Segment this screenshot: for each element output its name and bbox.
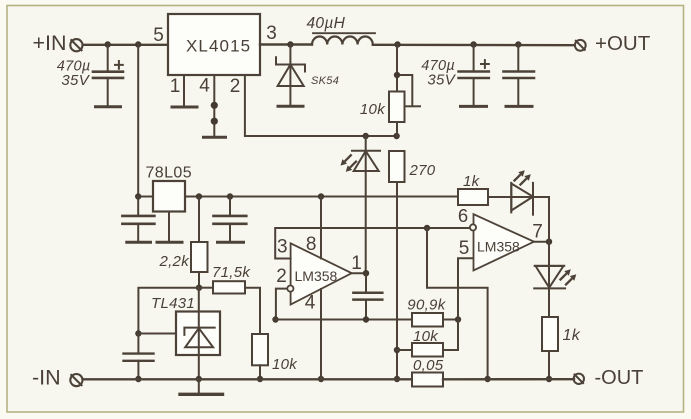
- svg-text:SK54: SK54: [311, 75, 339, 87]
- pin4 lead XL4015: [213, 75, 215, 136]
- node output cap 1: [470, 41, 476, 47]
- terminal -OUT: [574, 374, 584, 384]
- wire 5V rail: [138, 196, 153, 198]
- LED3 CC indicator: [534, 242, 576, 317]
- wire ref to TL431: [138, 333, 176, 335]
- ground bar (input cap): [96, 105, 121, 108]
- wire 270 down to shunt -IN node: [396, 182, 398, 379]
- node 10k bottom: [257, 376, 263, 382]
- LED1 indicator: [341, 136, 381, 273]
- ground bar (78L05 out cap): [218, 241, 244, 244]
- wire inductor to +OUT: [373, 44, 575, 47]
- svg-text:1k: 1k: [563, 327, 581, 344]
- node SK54 anode: [287, 41, 293, 47]
- node pot top: [394, 41, 400, 47]
- svg-text:4: 4: [305, 293, 316, 314]
- 78L05 ground lead: [168, 212, 170, 241]
- capacitor output ceramic: [504, 45, 535, 106]
- resistor 1k top: [458, 189, 488, 205]
- svg-text:3: 3: [277, 236, 288, 257]
- inductor 40uH: [312, 36, 373, 44]
- capacitor 78L05 output: [214, 197, 247, 241]
- node 10k sense: [394, 347, 400, 353]
- capacitor 470u output: [459, 45, 489, 106]
- svg-text:10k: 10k: [360, 101, 386, 118]
- svg-text:LM358: LM358: [477, 239, 520, 255]
- capacitor 470u input: [93, 45, 123, 106]
- node 90.9k right / pin5: [455, 316, 461, 322]
- node pin4 junction dots: [211, 102, 218, 109]
- resistor 270: [389, 151, 405, 182]
- pin1 ground lead XL4015: [183, 75, 185, 106]
- svg-text:1: 1: [351, 253, 362, 274]
- node op1 output: [363, 270, 369, 276]
- wire pot to FB node: [396, 122, 398, 136]
- svg-text:LM358: LM358: [295, 268, 338, 284]
- ground bar (pin4): [204, 136, 226, 139]
- op-amp U1B LM358: [474, 214, 535, 270]
- svg-text:5: 5: [153, 25, 164, 46]
- node LED1 cathode: [363, 133, 369, 139]
- resistor 0.05 shunt: [412, 373, 443, 387]
- svg-text:+IN: +IN: [33, 31, 67, 55]
- node TL431 anode: [196, 376, 202, 382]
- svg-text:1: 1: [170, 76, 181, 97]
- IC TL431: [176, 288, 220, 379]
- node TL431 cathode / 71.5k: [196, 285, 202, 291]
- svg-text:1k: 1k: [463, 173, 481, 190]
- wire op1 pin4 ground: [320, 289, 322, 379]
- svg-text:7: 7: [532, 222, 543, 243]
- svg-text:0,05: 0,05: [413, 357, 444, 374]
- svg-text:6: 6: [458, 205, 468, 226]
- svg-text:XL4015: XL4015: [186, 36, 251, 55]
- node 78L05 out cap: [227, 193, 233, 199]
- LED2 CV indicator: [488, 170, 549, 215]
- node output cap 2: [515, 41, 521, 47]
- IC XL4015 box: [168, 14, 260, 75]
- resistor 2.2k: [191, 197, 208, 288]
- node 78L05 input: [135, 193, 141, 199]
- svg-text:-IN: -IN: [32, 366, 61, 390]
- resistor 10k lower left: [252, 334, 268, 379]
- wire op1 output pin1: [352, 272, 366, 274]
- node TL431 ref: [135, 330, 141, 336]
- node input cap junction: [105, 41, 111, 47]
- svg-text:3: 3: [266, 23, 277, 44]
- terminal +OUT: [575, 40, 586, 51]
- node op1 pin4 ground: [318, 376, 324, 382]
- svg-text:40µH: 40µH: [307, 15, 346, 32]
- wire op1 pin2 input: [276, 289, 288, 320]
- wire LED2 to op2 out: [548, 197, 550, 242]
- svg-text:270: 270: [409, 162, 436, 179]
- terminal -IN: [70, 374, 82, 386]
- svg-text:35V: 35V: [427, 71, 456, 88]
- svg-text:-OUT: -OUT: [595, 367, 644, 389]
- node bottom rail x397: [394, 376, 400, 382]
- diode SK54 schottky: [276, 45, 305, 105]
- svg-text:2,2k: 2,2k: [158, 253, 190, 270]
- wire XL4015 pin3 to diode node: [260, 43, 312, 45]
- wire feedback net y319: [276, 319, 413, 321]
- capacitor comp op1: [353, 273, 382, 319]
- capacitor ref filter: [124, 334, 154, 380]
- resistor 1k right: [542, 317, 558, 379]
- wire op1 pin8 supply: [320, 197, 322, 259]
- node 1k bottom: [546, 376, 552, 382]
- wire bottom rail left: [83, 378, 412, 380]
- capacitor 78L05 input: [122, 197, 154, 241]
- svg-text:TL431: TL431: [151, 295, 195, 312]
- wire op2 pin6 sense: [427, 228, 488, 379]
- ground bar (pin1): [172, 106, 197, 109]
- pin6 bubble: [470, 224, 476, 230]
- node +IN sense branch: [135, 41, 141, 47]
- node FB / 270 top: [393, 133, 399, 139]
- wire XL4015 pin2 feedback: [245, 75, 397, 136]
- node 2.2k top: [196, 193, 202, 199]
- svg-text:90,9k: 90,9k: [407, 296, 446, 313]
- ground bar (78L05 in cap): [127, 241, 151, 244]
- svg-text:10k: 10k: [272, 356, 298, 373]
- ground bar (out cap 1): [461, 105, 487, 108]
- ground symbol TL431: [180, 379, 223, 394]
- svg-text:4: 4: [199, 75, 210, 96]
- node op2 output: [546, 239, 552, 245]
- wire bottom rail right: [443, 378, 574, 380]
- resistor 71.5k: [199, 281, 260, 334]
- wire +IN to XL4015 pin5: [83, 44, 168, 46]
- wire +IN down to 78L05 input: [137, 45, 139, 197]
- node op1 supply: [318, 193, 324, 199]
- op-amp U1A LM358: [291, 243, 352, 304]
- svg-text:5: 5: [459, 238, 470, 259]
- svg-text:71,5k: 71,5k: [212, 264, 251, 281]
- wire op2 output pin7: [534, 241, 549, 243]
- ground bar (78L05): [157, 241, 182, 244]
- wire op2 pin5: [458, 258, 474, 319]
- potentiometer 10k wiper tap: [397, 45, 420, 107]
- resistor 90.9k: [412, 313, 458, 327]
- node pin2 / feedback: [272, 316, 278, 322]
- IC 78L05 box: [153, 181, 185, 212]
- svg-text:2: 2: [230, 76, 241, 97]
- ground bar (out cap 2): [506, 105, 532, 108]
- terminal +IN: [70, 39, 82, 51]
- svg-text:+OUT: +OUT: [595, 32, 651, 55]
- wire 2.2k node to REF loop: [138, 288, 199, 334]
- svg-text:8: 8: [306, 234, 317, 255]
- label underline 40uH: [313, 32, 375, 34]
- svg-text:10k: 10k: [413, 328, 439, 345]
- svg-text:2: 2: [276, 266, 287, 287]
- wire op1 pin3 input: [275, 228, 470, 259]
- resistor 10k mid: [397, 320, 458, 357]
- resistor 10k pot body: [389, 92, 405, 123]
- node pot wiper: [394, 72, 400, 78]
- node shunt -OUT side: [484, 376, 490, 382]
- pin2 bubble: [287, 286, 293, 292]
- ground bar (SK54): [278, 105, 303, 108]
- node pin6 branch: [424, 225, 430, 231]
- node cap to net: [363, 316, 369, 322]
- node ref cap bottom: [135, 376, 141, 382]
- svg-text:35V: 35V: [61, 72, 90, 89]
- svg-text:78L05: 78L05: [146, 165, 193, 182]
